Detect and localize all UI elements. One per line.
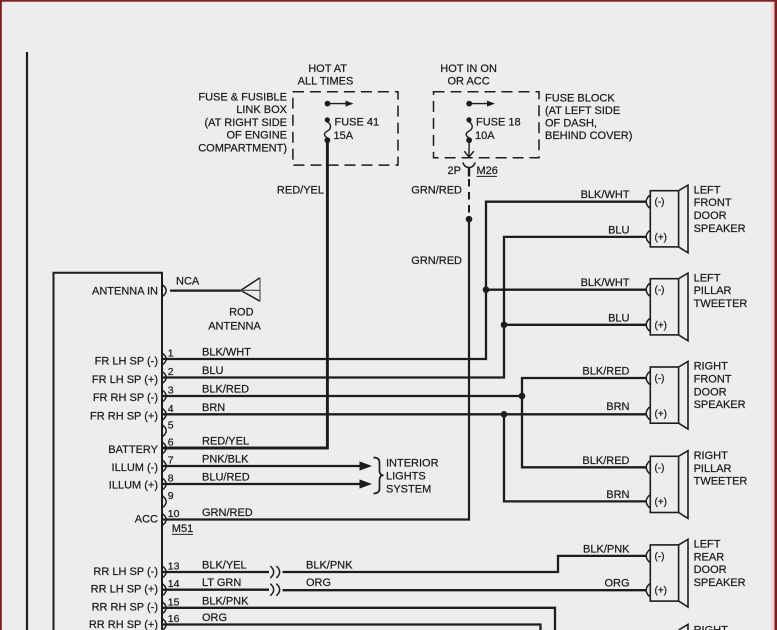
pin 8 bracket/number	[163, 478, 167, 489]
wire BLK/PNK connector to left rear door speaker (-)	[283, 556, 647, 572]
wire BLU pin2 to left front door speaker (+)	[163, 237, 646, 378]
svg-text:INTERIOR: INTERIOR	[386, 458, 439, 470]
pin 13 bracket/number	[163, 566, 167, 577]
speaker left pillar tweeter	[646, 272, 747, 340]
wire ORG pin16 to right rear door speaker	[163, 625, 541, 630]
svg-text:BLK/RED: BLK/RED	[202, 384, 249, 396]
svg-text:RIGHT: RIGHT	[694, 624, 729, 630]
svg-text:GRN/RED: GRN/RED	[411, 185, 462, 197]
pin 16 bracket/number	[163, 619, 167, 630]
svg-text:RED/YEL: RED/YEL	[277, 185, 324, 197]
svg-text:5: 5	[168, 419, 174, 431]
fuse box 41 dashed outline	[293, 92, 398, 165]
svg-text:SYSTEM: SYSTEM	[386, 484, 431, 496]
svg-text:(-): (-)	[655, 463, 665, 474]
pin 4 bracket/number	[163, 409, 167, 420]
svg-text:FRONT: FRONT	[694, 197, 732, 209]
svg-text:RR LH SP (+): RR LH SP (+)	[91, 584, 158, 596]
pin 14 bracket/number	[163, 584, 167, 595]
junction dot on GRN/RED	[466, 216, 473, 223]
svg-text:LT GRN: LT GRN	[202, 577, 241, 589]
fuse F18 symbol	[466, 117, 472, 143]
svg-text:ANTENNA: ANTENNA	[208, 321, 261, 333]
wire PNK/BLK pin7 arrow	[163, 465, 361, 467]
speaker left front door	[646, 184, 745, 252]
svg-text:LIGHTS: LIGHTS	[386, 471, 426, 483]
svg-text:RR RH SP (-): RR RH SP (-)	[92, 602, 158, 614]
speaker right pillar tweeter	[646, 450, 747, 518]
svg-text:ORG: ORG	[202, 612, 227, 624]
svg-text:BATTERY: BATTERY	[108, 444, 158, 456]
page border left	[0, 0, 2, 630]
svg-text:(-): (-)	[655, 197, 665, 208]
wire LT GRN pin14 to connector	[163, 589, 269, 591]
svg-text:(AT LEFT SIDE: (AT LEFT SIDE	[545, 105, 620, 117]
wire BLK/YEL pin13 to connector	[163, 571, 269, 573]
svg-text:2P: 2P	[448, 165, 461, 177]
wire BRN pin4 to right front door speaker (+)	[163, 413, 646, 415]
rod antenna symbol	[241, 278, 260, 301]
svg-text:2: 2	[168, 366, 174, 378]
svg-text:COMPARTMENT): COMPARTMENT)	[198, 142, 287, 154]
svg-text:LEFT: LEFT	[694, 184, 721, 196]
svg-text:(+): (+)	[655, 320, 668, 331]
junction dot BLU	[501, 322, 508, 329]
connector M26 cup symbol	[463, 163, 475, 168]
svg-text:LEFT: LEFT	[694, 539, 721, 551]
svg-text:OR ACC: OR ACC	[448, 76, 490, 88]
svg-text:15: 15	[168, 596, 180, 608]
svg-text:BLK/WHT: BLK/WHT	[202, 347, 251, 359]
pin 3 bracket/number	[163, 390, 167, 401]
svg-text:10: 10	[168, 508, 180, 520]
svg-text:TWEETER: TWEETER	[694, 298, 748, 310]
svg-text:FUSE & FUSIBLE: FUSE & FUSIBLE	[198, 92, 287, 104]
svg-text:BLU/RED: BLU/RED	[202, 472, 250, 484]
page border top	[0, 0, 777, 2]
svg-text:8: 8	[168, 473, 174, 485]
wire BLK/WHT pin1 to left front door speaker (-)	[163, 202, 646, 359]
radio head unit box	[54, 273, 163, 630]
svg-text:BLK/RED: BLK/RED	[582, 455, 629, 467]
svg-text:(+): (+)	[655, 586, 668, 597]
wire GRN/RED solid to pin 10	[163, 219, 469, 519]
svg-text:NCA: NCA	[176, 276, 200, 288]
svg-text:SPEAKER: SPEAKER	[694, 577, 746, 589]
svg-text:RIGHT: RIGHT	[694, 361, 729, 373]
svg-text:RED/YEL: RED/YEL	[202, 436, 249, 448]
wire BRN branch to right pillar tweeter (+)	[504, 414, 646, 501]
svg-text:BLU: BLU	[202, 365, 223, 377]
svg-text:FRONT: FRONT	[694, 374, 732, 386]
svg-text:FR LH SP (-): FR LH SP (-)	[95, 355, 158, 367]
svg-text:ILLUM (-): ILLUM (-)	[112, 462, 158, 474]
svg-text:1: 1	[168, 348, 174, 360]
left frame line	[26, 52, 28, 630]
svg-text:3: 3	[168, 385, 174, 397]
svg-text:FUSE 18: FUSE 18	[476, 117, 521, 129]
wire fuse18 to M26	[468, 143, 470, 151]
svg-text:(-): (-)	[655, 551, 665, 562]
wire BLK/PNK pin15 to right rear door speaker	[163, 608, 555, 630]
svg-text:LINK BOX: LINK BOX	[236, 104, 287, 116]
svg-text:HOT IN ON: HOT IN ON	[440, 63, 497, 75]
svg-text:RIGHT: RIGHT	[694, 450, 729, 462]
inline connector pin13	[270, 566, 273, 578]
pin bracket antenna	[163, 285, 167, 296]
speaker right front door	[646, 361, 745, 429]
svg-text:DOOR: DOOR	[694, 564, 727, 576]
pin 10 bracket/number	[163, 514, 167, 525]
svg-text:ANTENNA IN: ANTENNA IN	[92, 285, 158, 297]
svg-text:TWEETER: TWEETER	[694, 476, 748, 488]
svg-text:DOOR: DOOR	[694, 210, 727, 222]
fuse F41 symbol	[324, 117, 330, 143]
svg-text:(-): (-)	[655, 285, 665, 296]
svg-text:LEFT: LEFT	[694, 272, 721, 284]
svg-text:OF DASH,: OF DASH,	[545, 118, 597, 130]
svg-text:BLK/PNK: BLK/PNK	[306, 560, 353, 572]
svg-text:13: 13	[168, 561, 180, 573]
svg-text:PNK/BLK: PNK/BLK	[202, 454, 249, 466]
wire BLU/RED pin8 arrow	[163, 483, 361, 485]
svg-text:BLK/PNK: BLK/PNK	[583, 543, 630, 555]
svg-text:BLU: BLU	[608, 312, 629, 324]
junction dot BRN	[501, 411, 508, 418]
svg-text:PILLAR: PILLAR	[694, 285, 732, 297]
svg-text:REAR: REAR	[694, 551, 725, 563]
svg-text:BLU: BLU	[608, 224, 629, 236]
svg-text:GRN/RED: GRN/RED	[411, 255, 462, 267]
junction dot BLK/RED	[519, 393, 526, 400]
arrow in fuse box 41	[325, 101, 354, 107]
svg-text:FR RH SP (-): FR RH SP (-)	[93, 392, 158, 404]
svg-text:FUSE 41: FUSE 41	[335, 117, 380, 129]
svg-text:PILLAR: PILLAR	[694, 463, 732, 475]
pin 5 bracket/number	[163, 425, 167, 436]
svg-text:10A: 10A	[475, 130, 495, 142]
pin 2 bracket/number	[163, 372, 167, 383]
svg-text:ORG: ORG	[306, 577, 331, 589]
svg-text:FUSE BLOCK: FUSE BLOCK	[545, 93, 615, 105]
speaker right rear door (cut off)	[679, 624, 729, 630]
svg-text:7: 7	[168, 455, 174, 467]
wire BLK/RED pin3 to junction	[163, 395, 522, 397]
svg-text:BRN: BRN	[606, 401, 629, 413]
svg-text:(+): (+)	[655, 232, 668, 243]
svg-text:BLK/RED: BLK/RED	[582, 366, 629, 378]
svg-text:BLK/PNK: BLK/PNK	[202, 595, 249, 607]
wire BLK/WHT branch to left pillar tweeter (-)	[486, 289, 646, 291]
fuse box 18 dashed outline	[434, 92, 540, 158]
svg-text:M26: M26	[477, 165, 498, 177]
svg-text:ILLUM (+): ILLUM (+)	[109, 480, 158, 492]
svg-text:BLK/WHT: BLK/WHT	[581, 189, 630, 201]
svg-text:16: 16	[168, 613, 180, 625]
pin 6 bracket/number	[163, 442, 167, 453]
svg-text:HOT AT: HOT AT	[308, 63, 347, 75]
svg-text:GRN/RED: GRN/RED	[202, 507, 253, 519]
svg-text:(AT RIGHT SIDE: (AT RIGHT SIDE	[204, 117, 287, 129]
pin 1 bracket/number	[163, 353, 167, 364]
brace interior lights	[374, 458, 384, 494]
pin 7 bracket/number	[163, 460, 167, 471]
svg-text:ALL TIMES: ALL TIMES	[298, 76, 354, 88]
svg-text:BLK/WHT: BLK/WHT	[581, 277, 630, 289]
svg-text:BEHIND COVER): BEHIND COVER)	[545, 130, 632, 142]
svg-text:OF ENGINE: OF ENGINE	[226, 130, 287, 142]
svg-text:6: 6	[168, 437, 174, 449]
svg-text:FR LH SP (+): FR LH SP (+)	[92, 374, 158, 386]
svg-text:DOOR: DOOR	[694, 386, 727, 398]
pin 15 bracket/number	[163, 602, 167, 613]
svg-text:ROD: ROD	[229, 307, 254, 319]
svg-text:BRN: BRN	[606, 489, 629, 501]
pin 9 bracket/number	[163, 496, 167, 507]
svg-text:ORG: ORG	[604, 578, 629, 590]
label FUSE & FUSIBLE LINK BOX	[198, 92, 287, 155]
wire BLU branch to left pillar tweeter (+)	[504, 324, 646, 326]
svg-text:SPEAKER: SPEAKER	[694, 223, 746, 235]
junction dot BLK/WHT	[483, 286, 490, 293]
wire GRN/RED dashed segment	[468, 179, 470, 216]
svg-text:ACC: ACC	[135, 514, 158, 526]
wire BLK/RED to right front door speaker (-) and right pillar tweeter (-)	[522, 378, 646, 467]
svg-text:(-): (-)	[655, 374, 665, 385]
svg-text:M51: M51	[172, 523, 193, 535]
svg-text:15A: 15A	[334, 130, 354, 142]
svg-text:(+): (+)	[655, 497, 668, 508]
svg-text:RR RH SP (+): RR RH SP (+)	[89, 619, 158, 630]
arrow in fuse box 18	[466, 101, 495, 107]
wire NCA	[170, 290, 241, 292]
svg-text:RR LH SP (-): RR LH SP (-)	[93, 566, 158, 578]
svg-text:SPEAKER: SPEAKER	[694, 399, 746, 411]
inline connector pin14	[270, 584, 273, 596]
svg-text:9: 9	[168, 490, 174, 502]
svg-text:FR RH SP (+): FR RH SP (+)	[90, 410, 158, 422]
open arrowhead down	[464, 151, 474, 157]
svg-text:(+): (+)	[655, 409, 668, 420]
page border right	[772, 3, 775, 630]
speaker left rear door	[646, 539, 745, 607]
svg-text:14: 14	[168, 578, 180, 590]
svg-text:BLK/YEL: BLK/YEL	[202, 560, 247, 572]
wire ORG connector to left rear door speaker (+)	[283, 589, 647, 591]
wire RED/YEL fuse41 to pin 6	[163, 142, 327, 448]
svg-text:4: 4	[168, 403, 174, 415]
svg-text:BRN: BRN	[202, 402, 225, 414]
